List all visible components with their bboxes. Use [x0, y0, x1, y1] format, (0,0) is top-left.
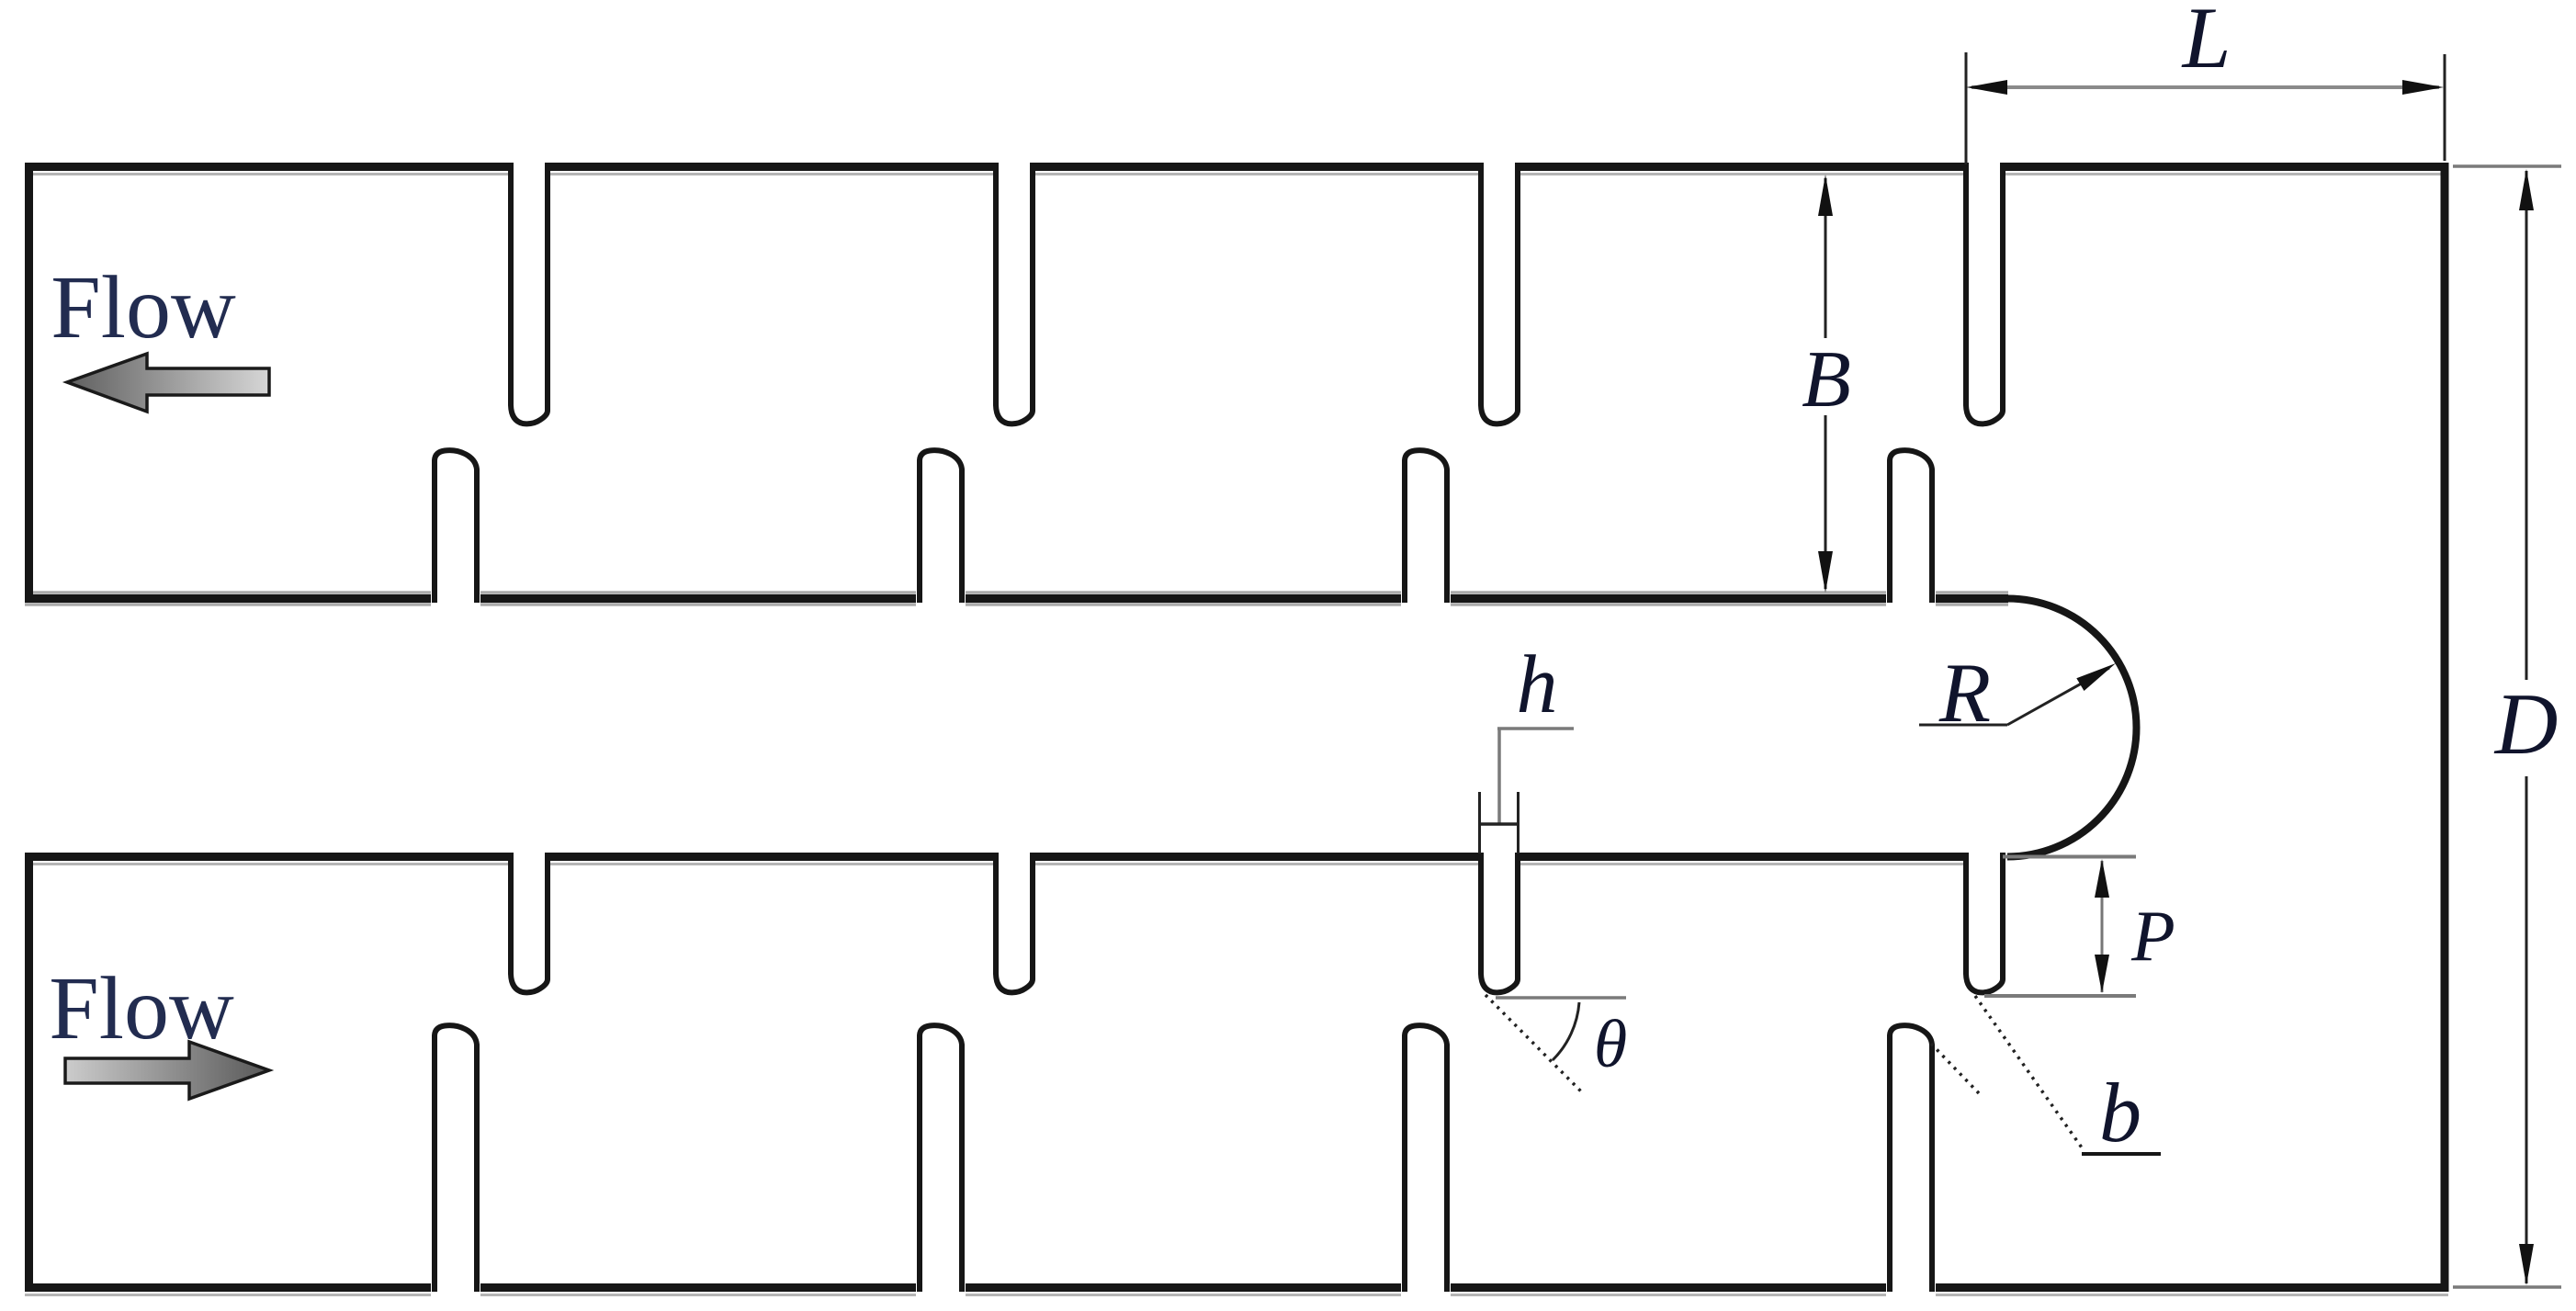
dimension R leader underline — [1919, 724, 2007, 727]
top channel top wall — [25, 163, 2449, 171]
right wall — [2441, 163, 2449, 1292]
baffle TU3 — [1405, 450, 1447, 603]
baffle TU2 — [920, 450, 962, 603]
bottom channel top wall — [25, 853, 1963, 861]
U-turn inner arc — [2007, 599, 2137, 857]
flow arrow bottom (pointing right) — [65, 1042, 269, 1099]
mid wall — [25, 594, 2008, 603]
dimension P arrowhead top — [2095, 859, 2109, 898]
flow arrow top (pointing left) — [67, 354, 269, 412]
theta horizontal reference line — [1496, 996, 1626, 1000]
dimension R arrowhead — [2076, 663, 2116, 691]
baffle TD2 — [996, 163, 1033, 424]
baffle BD4 (P baffle) — [1966, 853, 2003, 992]
svg-text:b: b — [2099, 1066, 2141, 1159]
baffle BU4 — [1890, 1025, 1932, 1292]
dimension L line — [1972, 85, 2439, 89]
dimension R radius line — [2007, 668, 2109, 725]
svg-text:L: L — [2181, 0, 2231, 86]
bottom channel left wall — [25, 853, 33, 1292]
svg-text:h: h — [1517, 639, 1558, 730]
b label underline — [2082, 1152, 2161, 1156]
theta arc — [1553, 1002, 1579, 1060]
dimension P extension line bottom — [1984, 994, 2136, 998]
baffle BD2 — [996, 853, 1033, 992]
baffle TD3 — [1481, 163, 1518, 424]
baffle TU1 (top channel, rising) — [435, 450, 477, 603]
baffle TD4 — [1966, 163, 2003, 424]
baffle TU4 — [1890, 450, 1932, 603]
dimension P extension line top — [2003, 855, 2136, 859]
dimension D line — [2525, 171, 2528, 1283]
dimension B arrowhead bottom — [1818, 551, 1833, 593]
svg-text:P: P — [2130, 896, 2175, 976]
wall halo bottom channel top wall — [25, 863, 1963, 865]
dimension L arrowhead right — [2402, 80, 2444, 95]
top channel left wall — [25, 163, 33, 603]
dimension D arrowhead bottom — [2519, 1244, 2534, 1285]
wall halo top wall — [25, 173, 2448, 175]
theta dotted diagonal — [1486, 995, 1583, 1093]
b dotted tick at up-baffle corner — [1931, 1044, 1979, 1093]
dimension B line — [1825, 178, 1827, 589]
baffle BU3 — [1405, 1025, 1447, 1292]
dimension D arrowhead top — [2519, 169, 2534, 210]
svg-text:D: D — [2493, 675, 2559, 773]
h baffle top cap — [1478, 822, 1520, 826]
svg-text:θ: θ — [1594, 1007, 1627, 1082]
dimension D extension line bottom — [2453, 1285, 2561, 1289]
b dotted diagonal from baffle tip — [1975, 996, 2084, 1150]
dimension B arrowhead top — [1818, 175, 1833, 216]
bottom wall — [25, 1283, 2449, 1292]
wall halo mid wall — [25, 593, 2008, 605]
baffle BD3 (h baffle) — [1481, 853, 1518, 992]
svg-text:Flow: Flow — [49, 959, 234, 1058]
dimension L arrowhead left — [1966, 80, 2007, 95]
baffle BU1 (bottom channel, rising) — [435, 1025, 477, 1292]
svg-text:B: B — [1802, 335, 1851, 424]
dimension D extension line top — [2453, 164, 2561, 168]
dimension L extension line left — [1965, 52, 1968, 164]
baffle TD1 (top channel, hanging) — [511, 163, 548, 424]
baffle BD1 (bottom channel, hanging) — [511, 853, 548, 992]
wall halo bottom wall — [25, 1294, 2448, 1296]
dimension h underline — [1497, 727, 1574, 730]
svg-text:Flow: Flow — [51, 258, 236, 357]
h baffle protruding edge right — [1517, 792, 1520, 853]
h baffle protruding edge left — [1478, 792, 1481, 853]
baffle BU2 — [920, 1025, 962, 1292]
dimension h leader — [1497, 729, 1501, 824]
dimension P line — [2101, 861, 2104, 992]
svg-text:R: R — [1938, 646, 1991, 740]
dimension P arrowhead bottom — [2095, 955, 2109, 993]
dimension L extension line right — [2444, 54, 2446, 161]
